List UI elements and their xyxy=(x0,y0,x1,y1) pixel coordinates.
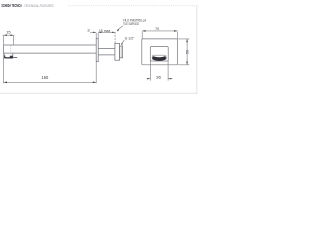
arrowheads dim 15max xyxy=(98,32,101,33)
arrowhead leader G 1/2 xyxy=(121,43,123,46)
dim 3: extension lines xyxy=(96,33,98,39)
svg-text:15: 15 xyxy=(6,30,11,35)
dim 160: dimension line xyxy=(4,81,97,83)
header dotted leader xyxy=(68,5,196,7)
leader G 1/2 xyxy=(121,40,124,44)
dim 50 right: extension lines xyxy=(178,39,189,65)
arrowheads dim 3 xyxy=(93,32,96,33)
hidden edge tip xyxy=(10,45,12,53)
front view outlet dark bowl xyxy=(152,55,167,61)
svg-text:70: 70 xyxy=(155,26,160,31)
dim 15 tip: extension lines xyxy=(3,36,5,45)
frame bottom border xyxy=(0,92,197,94)
svg-text:- TECHNICAL FEATURES: - TECHNICAL FEATURES xyxy=(23,3,54,8)
dim 160: extension left xyxy=(3,53,5,83)
tile surface dashed line xyxy=(114,32,116,44)
svg-text:15 max: 15 max xyxy=(99,28,111,33)
front view spout body xyxy=(150,47,168,61)
dim 36: dimension line xyxy=(147,78,173,80)
inlet pipe xyxy=(98,49,115,55)
aerator under tip xyxy=(4,53,13,58)
wall plate side view xyxy=(96,39,98,62)
arrowheads dim 15 tip xyxy=(4,34,7,36)
arrowhead leader tile xyxy=(117,29,119,31)
dim 70 top: dimension line xyxy=(142,30,177,32)
svg-text:G 1/2": G 1/2" xyxy=(125,36,135,41)
front view opening rim xyxy=(152,55,166,59)
dim 160: extension right xyxy=(95,62,97,83)
aerator dark insert xyxy=(4,56,12,59)
frame right border xyxy=(196,5,198,94)
spout tube side view xyxy=(4,45,97,53)
arrowheads dim 160 xyxy=(4,82,7,84)
arrowheads dim 70 xyxy=(142,30,145,32)
nipple G1/2 xyxy=(120,46,123,58)
aerator lip line xyxy=(13,57,17,59)
dim 15 tip: dimension line xyxy=(3,34,15,36)
arrowheads dim 50 xyxy=(186,39,188,42)
svg-text:36: 36 xyxy=(156,75,162,80)
svg-text:160: 160 xyxy=(42,75,50,80)
dim 50 right: dimension line xyxy=(186,39,188,65)
backnut xyxy=(115,43,120,60)
svg-text:SCHEDA TECNICA: SCHEDA TECNICA xyxy=(1,3,22,8)
svg-text:50: 50 xyxy=(184,49,189,54)
front view plate xyxy=(142,39,178,65)
dim 70 top: extension lines xyxy=(142,32,177,39)
dim 36: extension lines xyxy=(150,61,168,80)
dim 3 / 15max: dimension line xyxy=(90,31,115,33)
arrowheads dim 36 xyxy=(147,78,150,79)
leader tile surface xyxy=(117,26,123,31)
svg-text:TILE SURFACE: TILE SURFACE xyxy=(123,22,139,26)
svg-text:3: 3 xyxy=(87,28,90,33)
